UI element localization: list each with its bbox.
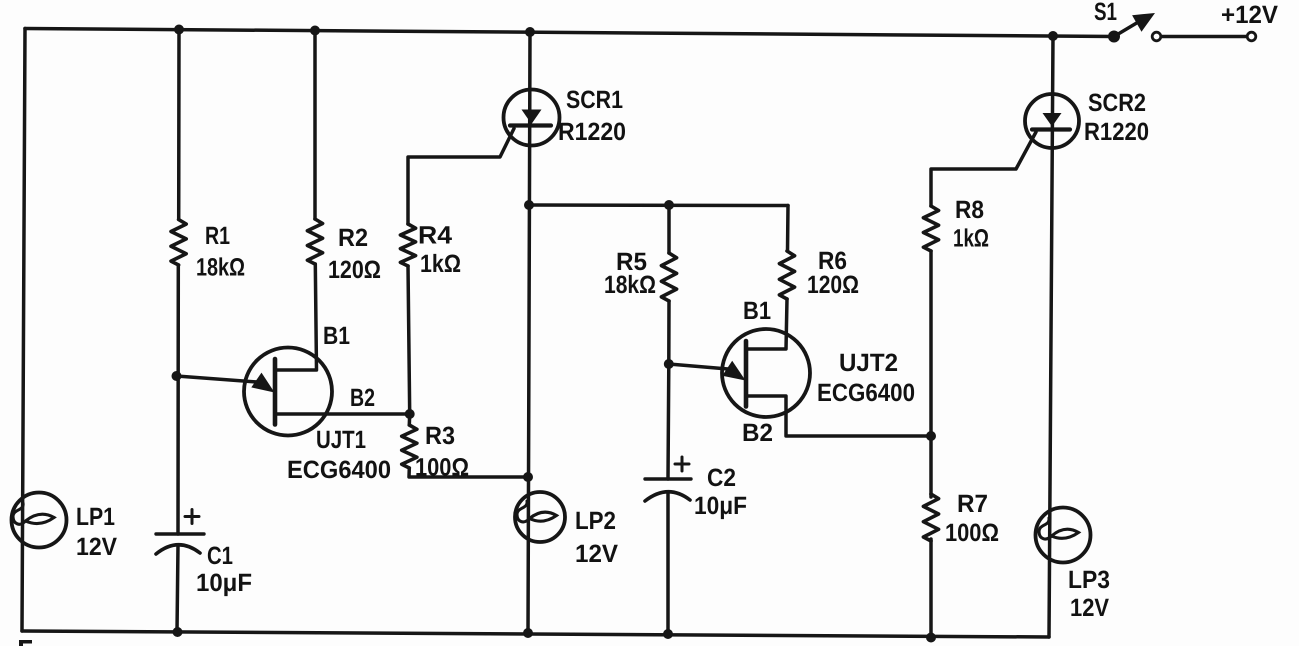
- capacitor C1 plus sign: [185, 515, 199, 518]
- terminal +12V circle: [1247, 32, 1256, 41]
- svg-text:UJT2: UJT2: [839, 349, 898, 377]
- wire SCR1 cathode to R6: [529, 203, 788, 207]
- node top rail junction B: [310, 26, 320, 36]
- capacitor C1 curved plate: [156, 545, 200, 554]
- node bottom rail junction D: [523, 628, 533, 638]
- transistor UJT2 circle: [722, 329, 810, 417]
- svg-text:12V: 12V: [575, 540, 618, 568]
- lamp LP2 filament loop: [517, 501, 557, 522]
- node mid-wire junction D: [524, 200, 534, 210]
- thyristor SCR2 triangle: [1043, 113, 1062, 127]
- resistor R6: [779, 251, 794, 299]
- wire R6 top: [786, 206, 790, 252]
- capacitor C2 plate: [645, 477, 691, 480]
- node UJT2 emitter junction: [664, 359, 674, 369]
- wire R2 to UJT1 B1: [277, 264, 317, 370]
- svg-text:R7: R7: [957, 490, 988, 518]
- caption fragment (cut off): [19, 640, 32, 646]
- thyristor SCR2 circle: [1025, 94, 1079, 148]
- svg-text:R2: R2: [338, 224, 368, 252]
- svg-text:18kΩ: 18kΩ: [196, 254, 245, 282]
- svg-text:SCR1: SCR1: [566, 86, 623, 114]
- transistor UJT1 B2 lead: [275, 412, 408, 416]
- wire emitter node to C2: [666, 364, 670, 479]
- wire B2 node to R7: [929, 436, 933, 497]
- node top rail junction D: [525, 27, 535, 37]
- svg-text:B1: B1: [323, 322, 350, 350]
- lamp LP3 circle: [1036, 508, 1091, 563]
- svg-text:100Ω: 100Ω: [945, 519, 999, 547]
- svg-text:1kΩ: 1kΩ: [420, 250, 461, 278]
- transistor UJT1 base bar: [273, 359, 278, 425]
- svg-text:120Ω: 120Ω: [807, 271, 859, 299]
- svg-text:120Ω: 120Ω: [328, 256, 381, 284]
- svg-text:S1: S1: [1094, 0, 1117, 26]
- resistor R3: [402, 425, 417, 468]
- node mid-wire junction E: [664, 200, 674, 210]
- svg-text:SCR2: SCR2: [1088, 89, 1146, 117]
- wire R7 to bottom: [929, 539, 933, 638]
- switch S1 throw terminal: [1152, 32, 1161, 41]
- wire column SCR2/LP3: [1049, 36, 1053, 637]
- thyristor SCR1 cathode bar: [510, 123, 551, 127]
- svg-text:R3: R3: [425, 422, 455, 450]
- wire column SCR1/LP2: [528, 32, 530, 633]
- svg-text:UJT1: UJT1: [316, 426, 366, 454]
- svg-text:LP2: LP2: [575, 507, 616, 535]
- thyristor SCR1 triangle: [522, 110, 542, 125]
- transistor UJT2 emitter arrow: [722, 361, 745, 381]
- lamp LP3 filament loop: [1039, 518, 1079, 539]
- node UJT2 B2 junction: [926, 431, 936, 441]
- svg-text:B2: B2: [350, 384, 375, 412]
- wire mid to R5: [667, 205, 671, 253]
- wire SCR1 gate lead: [408, 129, 514, 225]
- transistor UJT1 emitter arrow: [251, 373, 274, 393]
- resistor R4: [400, 224, 415, 266]
- svg-text:18kΩ: 18kΩ: [604, 271, 656, 299]
- wire R5 to emitter node: [667, 301, 671, 364]
- capacitor C1 plate: [156, 532, 204, 535]
- capacitor C2 plus sign: [675, 463, 689, 466]
- svg-text:12V: 12V: [76, 533, 117, 561]
- node UJT1 emitter junction: [172, 371, 182, 381]
- resistor R8: [923, 206, 938, 251]
- wire bottom ground rail: [22, 631, 1049, 637]
- transistor UJT1 emitter wire: [177, 376, 258, 382]
- svg-text:ECG6400: ECG6400: [287, 456, 391, 484]
- resistor R2: [307, 219, 322, 264]
- resistor R5: [661, 253, 676, 301]
- wire SCR2 gate lead: [931, 132, 1036, 206]
- node bottom rail junction A: [173, 627, 183, 637]
- node top rail junction A: [174, 25, 184, 35]
- node top rail junction H: [1048, 31, 1058, 41]
- switch S1 lever arrow: [1132, 13, 1155, 32]
- svg-text:LP3: LP3: [1068, 566, 1110, 594]
- svg-text:1kΩ: 1kΩ: [953, 225, 989, 253]
- svg-text:B1: B1: [743, 297, 771, 325]
- svg-text:R1220: R1220: [1084, 118, 1149, 146]
- switch S1 lever: [1114, 21, 1140, 37]
- svg-text:ECG6400: ECG6400: [817, 379, 915, 407]
- transistor UJT2 emitter wire: [669, 364, 728, 369]
- thyristor SCR2 cathode bar: [1032, 127, 1070, 131]
- wire R3 to LP2 column: [409, 468, 528, 477]
- wire R6 to UJT2 B1: [747, 299, 787, 349]
- wire R8 to B2 node: [929, 251, 933, 436]
- svg-text:10μF: 10μF: [694, 492, 747, 520]
- svg-text:10μF: 10μF: [196, 569, 252, 597]
- resistor R7: [923, 494, 938, 541]
- resistor R1: [171, 220, 186, 266]
- wire top supply rail: [25, 29, 1114, 37]
- node bottom rail junction G: [926, 633, 936, 643]
- svg-text:C1: C1: [207, 542, 233, 570]
- svg-text:100Ω: 100Ω: [415, 454, 469, 482]
- wire left rail: [22, 29, 25, 632]
- lamp LP1 circle: [12, 493, 67, 548]
- wire column R1/C1 lower: [177, 545, 178, 632]
- node UJT1 B2 junction: [405, 409, 415, 419]
- node R3/LP2 junction: [523, 472, 533, 482]
- node bottom rail junction E: [663, 629, 673, 639]
- lamp LP2 circle: [515, 492, 565, 542]
- wire S1 to +12V terminal: [1162, 35, 1247, 39]
- svg-text:R1: R1: [205, 222, 230, 250]
- svg-text:R8: R8: [955, 196, 984, 224]
- lamp LP1 filament loop: [13, 503, 54, 524]
- switch S1 pole dot: [1108, 31, 1120, 43]
- wire R4 to B2 node: [408, 266, 410, 414]
- transistor UJT2 base bar: [744, 341, 749, 407]
- svg-text:R4: R4: [418, 222, 452, 250]
- svg-text:R1220: R1220: [558, 118, 626, 146]
- svg-text:+12V: +12V: [1221, 1, 1278, 29]
- thyristor SCR1 circle: [504, 90, 560, 146]
- wire R1 to C1 segment: [176, 265, 180, 534]
- wire R3 top stub: [408, 414, 412, 425]
- svg-text:C2: C2: [707, 464, 736, 492]
- wire column R2 upper: [313, 30, 317, 219]
- svg-text:12V: 12V: [1070, 594, 1109, 622]
- capacitor C2 curved plate: [645, 492, 690, 501]
- transistor UJT1 circle: [244, 348, 332, 436]
- transistor UJT2 B2 lead: [746, 396, 931, 436]
- wire column R1 upper: [177, 30, 181, 220]
- svg-text:LP1: LP1: [76, 503, 115, 531]
- svg-text:B2: B2: [742, 419, 773, 447]
- wire C2 to bottom: [666, 492, 670, 634]
